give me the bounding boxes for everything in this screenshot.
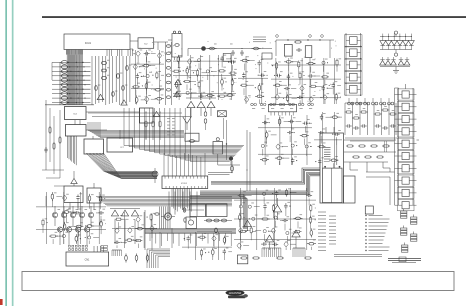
IC107 box: [107, 138, 133, 152]
IC202 box: [269, 104, 297, 115]
transistor Q2 box: [305, 46, 312, 58]
sync separator section components (R4 group, 8 parts): [240, 56, 268, 104]
oscillator section components (R2 group, 14 parts): [132, 50, 164, 105]
bottom resistor row: [240, 257, 312, 259]
left margin teal rule 1: [5, 0, 7, 306]
left DAC section components (R3 group, 22 parts): [172, 55, 237, 100]
header stack H4: [411, 232, 417, 242]
grid block RB: [374, 103, 397, 135]
IC108 box: [140, 108, 153, 123]
header stack H5: [402, 243, 408, 253]
op-amp A8: [292, 230, 300, 248]
decoupling capacitor bank C21-C28: [166, 42, 172, 105]
op-amp A11: [131, 210, 138, 216]
wire harness diagonal fan 1: [86, 153, 157, 179]
right of center wires components (R8 group, 7 parts): [315, 113, 342, 168]
svg-text:IC201: IC201: [181, 183, 188, 185]
note text block: [253, 37, 266, 42]
trunk pair x224: [224, 118, 228, 160]
deflection section wiring rails: [36, 192, 106, 244]
op-amp A6: [273, 198, 281, 220]
connector P1 contact column: [52, 61, 68, 105]
grid block RA: [345, 103, 368, 135]
left DAC section wiring rails: [173, 55, 236, 100]
op-amp A5: [207, 101, 215, 107]
junction dots: [140, 41, 337, 105]
LED array DA2 (5 diodes) with ground: [380, 57, 410, 73]
op-amp A7: [265, 235, 273, 250]
flyback transformer T3: [320, 127, 343, 203]
output transistors Q11-Q19: [52, 206, 96, 245]
vertical resistors R61-R63: [145, 111, 161, 140]
chain B feed wires: [395, 84, 420, 140]
jumper box J2: [237, 255, 247, 264]
IC201 input drops: [164, 153, 205, 176]
IC102 box: [138, 38, 154, 49]
header stack H2: [411, 215, 417, 225]
revision table box (bottom): [22, 272, 454, 291]
IC104 box: [65, 107, 87, 120]
oscillator section wiring rails: [131, 50, 164, 104]
box right of T3: [343, 176, 355, 203]
transformer T2 box: [218, 111, 227, 117]
thick bus band B to audio: [190, 195, 247, 229]
key matrix grid: [45, 62, 94, 105]
driver block 2: [87, 188, 101, 203]
wires upper-right bias: [276, 35, 334, 58]
legend text right: [365, 215, 389, 251]
op-amp rails: [186, 93, 216, 116]
connector comb CN5: [293, 248, 305, 257]
IC106 box: [84, 139, 104, 154]
horizontal trunk bus lower: [96, 197, 232, 206]
red registration mark bottom-left: [0, 299, 3, 305]
op-amp A10: [121, 210, 128, 216]
block interconnect wires: [75, 112, 146, 139]
amp A13 (inverting, down): [183, 117, 192, 131]
audio output section wiring rails: [234, 188, 316, 250]
driver block 1: [64, 186, 83, 203]
scale bar: [388, 257, 421, 263]
bottom mid section 2 wiring rails: [182, 232, 232, 260]
bus from IC101 right group: [92, 56, 130, 105]
vertical bundle to bottom trunk: [160, 207, 171, 229]
chroma section wiring rails: [271, 58, 341, 104]
IC array chain B (10 cells): [395, 88, 417, 211]
left margin wiring: [42, 100, 64, 206]
bus from IC201 bottom bundle: [172, 189, 191, 212]
drop wires to stepped bus: [350, 162, 390, 172]
video amp section wiring rails: [258, 115, 312, 165]
amp A12: [153, 111, 159, 116]
connector comb CN4: [262, 248, 281, 257]
op-amp A3: [187, 101, 195, 107]
IC105 box: [66, 125, 87, 137]
upper band to right: [88, 122, 184, 137]
manufacturer logo: [226, 290, 248, 298]
IC array chain A (5 cells): [345, 33, 363, 96]
ellipse trio: [204, 219, 232, 233]
horizontal RC rows right: [344, 140, 396, 162]
upper horizontal pair: [88, 113, 182, 117]
svg-text:IC101: IC101: [85, 43, 92, 45]
chroma section components (R5 group, 23 parts): [272, 58, 341, 104]
motor M1: [155, 208, 186, 222]
video amp section components (R7 group, 14 parts): [260, 117, 312, 165]
header stack H3: [401, 226, 407, 236]
footnote text: [334, 255, 382, 257]
buffer amp A1: [175, 79, 182, 92]
bus from IC101 (vertical harness): [67, 55, 82, 105]
driver box pair: [190, 204, 227, 217]
IC201 long box: [162, 176, 208, 189]
left margin teal rule 2: [12, 0, 14, 306]
LED array DA1 (6 diodes): [380, 31, 415, 56]
IC201 output wires: [160, 192, 232, 249]
svg-text:GOLDSTAR: GOLDSTAR: [229, 292, 242, 295]
bottom mid section components (RB group, 10 parts): [114, 213, 157, 248]
op-amp A4: [197, 101, 205, 107]
comb feed wires: [115, 210, 152, 250]
termination pair row: [251, 98, 394, 109]
thick bus band A to flyback: [200, 168, 320, 194]
bundle below IC105: [68, 136, 77, 165]
right of center wires wiring rails: [314, 112, 342, 168]
bottom mid section wiring rails: [112, 212, 157, 248]
vertical trunk center: [246, 130, 250, 191]
connector CN1: [66, 245, 109, 266]
regulator box VR1: [213, 138, 240, 165]
wire harness nested bends to center: [124, 108, 244, 161]
top horizontal rule: [42, 16, 466, 18]
pull-up resistor network RN1: [95, 60, 132, 105]
audio output section components (R9 group, 30 parts): [237, 188, 316, 250]
notes text column: [318, 212, 336, 251]
amp rail: [110, 208, 140, 210]
op-amp A9: [111, 210, 118, 216]
bottom trunk band: [145, 229, 236, 246]
pot P2: [152, 168, 158, 183]
filter network RC top row: [188, 44, 272, 57]
transistor box Q20: [186, 217, 197, 229]
terminal box: [365, 206, 373, 214]
wire top strip: [130, 41, 168, 51]
small box IC103: [223, 53, 272, 61]
output ellipse parts: [125, 254, 149, 263]
buffer amp A2: [174, 91, 181, 96]
deflection section components (RA group, 17 parts): [42, 192, 106, 244]
pad row CN2: [112, 250, 122, 256]
op-amp A6b: [239, 220, 256, 232]
wire pair IC201 to cap: [208, 161, 233, 175]
transistor Q1 box: [284, 44, 292, 56]
driver feeds: [70, 183, 94, 210]
nested bends to CN area: [147, 249, 170, 268]
signal name labels: [167, 118, 175, 135]
header stack H1: [401, 209, 407, 219]
microcontroller IC101: [64, 34, 132, 56]
ceramic filter CF1: [168, 31, 182, 60]
svg-text:CN1: CN1: [85, 259, 90, 262]
mixer box: [185, 133, 199, 142]
comp column left of VR1: [204, 108, 207, 130]
chain B bus wires: [345, 88, 398, 205]
sync separator section wiring rails: [238, 56, 268, 104]
bottom mid section 2 components (RC group, 7 parts): [184, 233, 232, 260]
vertical label text: [385, 141, 387, 152]
amp A14: [71, 171, 77, 184]
